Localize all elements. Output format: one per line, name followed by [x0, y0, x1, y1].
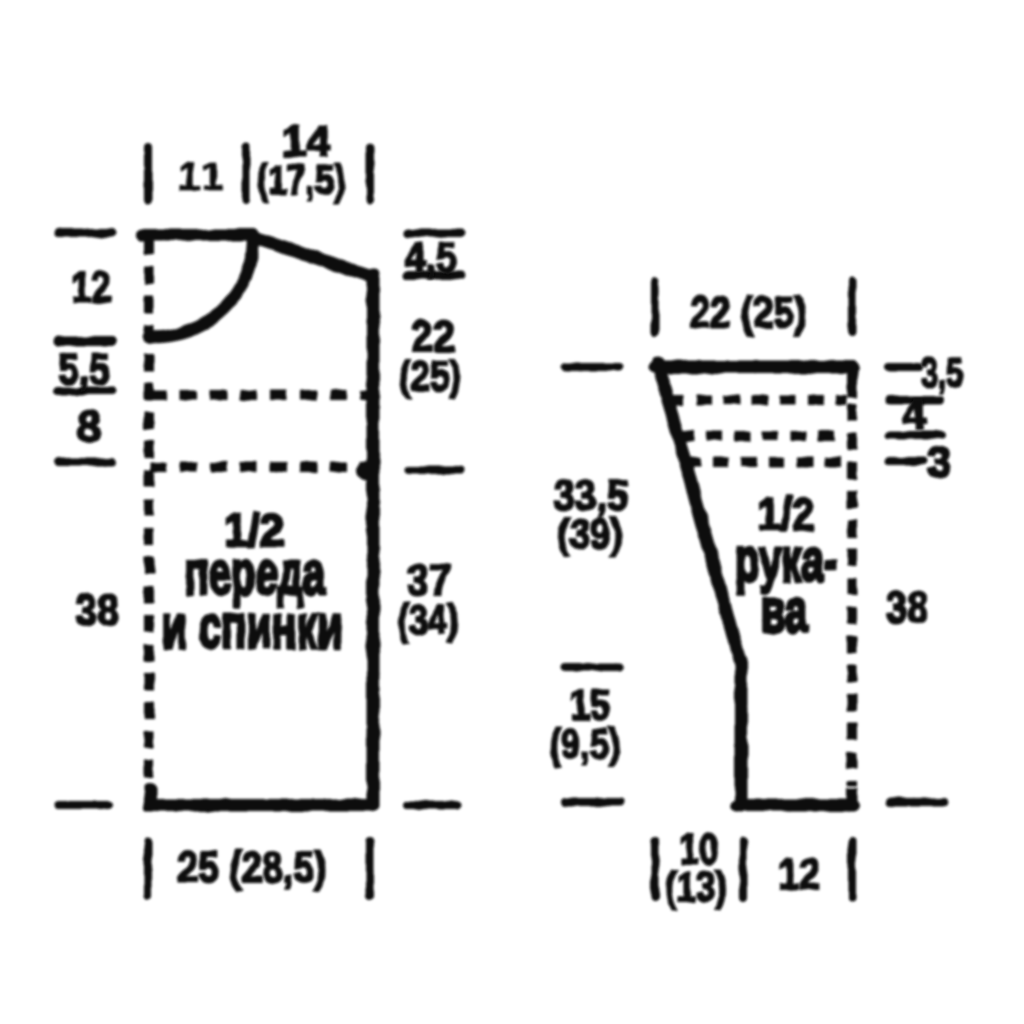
- front/back piece: top width tick left: [144, 147, 152, 200]
- front/back piece: right tick at waist: [409, 466, 461, 474]
- svg-text:(13): (13): [665, 863, 727, 910]
- svg-text:5,5: 5,5: [58, 345, 110, 394]
- front/back piece: top width tick right: [366, 147, 374, 200]
- front/back piece: neckline curve: [149, 239, 253, 337]
- sleeve piece: left tick at cuff: [565, 798, 620, 806]
- sleeve piece: left tick at top: [565, 363, 620, 371]
- svg-text:(39): (39): [558, 510, 623, 557]
- svg-text:12: 12: [71, 263, 111, 312]
- front/back piece: left tick below 12: [58, 336, 112, 346]
- sleeve piece: left tick below 33,5: [565, 663, 620, 671]
- sleeve piece: right dash at 3: [889, 457, 924, 465]
- sleeve piece: top edge: [655, 361, 853, 374]
- front/back piece: right tick below 4,5: [407, 271, 462, 279]
- svg-text:(17,5): (17,5): [257, 156, 346, 203]
- front/back piece: bottom width tick left: [144, 841, 152, 896]
- sleeve piece: bottom width tick right: [848, 841, 856, 898]
- front/back piece: right side edge: [367, 274, 380, 805]
- sleeve piece: bottom width tick left: [651, 841, 659, 898]
- front/back piece: top shoulder edge: [142, 229, 254, 241]
- svg-text:38: 38: [75, 586, 119, 635]
- front/back piece: left tick below 5,5: [58, 387, 112, 395]
- svg-text:1: 1: [178, 155, 200, 199]
- front/back piece: lower inner dashed line (waist level): [150, 462, 364, 472]
- front/back piece: center fold line (dashed): [144, 238, 154, 798]
- sleeve piece: right tick at cuff: [890, 798, 944, 806]
- svg-text:1: 1: [201, 155, 223, 199]
- front/back piece: bottom hem edge: [150, 788, 373, 805]
- sleeve piece: right bottom corner stub: [847, 788, 858, 805]
- sleeve piece: right fold edge (dashed): [847, 404, 857, 786]
- svg-text:12: 12: [778, 850, 820, 899]
- front/back piece: left tick below 8: [58, 458, 112, 466]
- svg-text:ва: ва: [761, 576, 808, 645]
- front/back piece: top width tick middle: [242, 147, 250, 200]
- sleeve piece: right tick below 4: [889, 431, 942, 439]
- svg-text:3: 3: [927, 438, 951, 487]
- front/back piece: left tick at hem: [58, 801, 108, 809]
- svg-text:(34): (34): [398, 596, 459, 643]
- front/back piece: right tick at hem: [407, 801, 458, 809]
- sleeve piece: bottom cuff edge: [737, 799, 853, 811]
- svg-text:(9,5): (9,5): [550, 720, 621, 767]
- sleeve piece: top width tick left: [651, 281, 659, 332]
- front/back piece: waist junction blob: [357, 461, 377, 481]
- sleeve piece: bottom width tick middle: [739, 841, 747, 898]
- svg-text:38: 38: [886, 583, 928, 632]
- sleeve piece: inner dashed line at 3 level: [685, 457, 846, 467]
- svg-text:25 (28,5): 25 (28,5): [178, 843, 327, 892]
- front/back piece: right tick above 4,5: [407, 229, 462, 237]
- svg-text:4: 4: [902, 390, 927, 439]
- sleeve piece: lower left edge: [735, 661, 748, 805]
- sleeve piece: top width tick right: [848, 281, 856, 332]
- sleeve piece: inner dashed line at 4 level: [678, 431, 846, 441]
- svg-text:3,5: 3,5: [921, 349, 963, 396]
- front/back piece: upper inner dashed line (armhole level): [150, 390, 367, 400]
- front/back piece: bottom width tick right: [366, 841, 374, 896]
- sleeve piece: right dash at 3,5: [888, 363, 919, 371]
- svg-text:8: 8: [77, 402, 101, 451]
- svg-text:(25): (25): [399, 352, 461, 399]
- sleeve piece: slanted left edge: [658, 363, 741, 665]
- front/back piece: left tick at shoulder level: [58, 229, 112, 237]
- svg-text:и спинки: и спинки: [162, 592, 343, 661]
- sleeve piece: right top corner stub: [847, 364, 858, 398]
- sleeve piece: right tick above 4: [889, 396, 940, 404]
- sleeve piece: inner dashed line at 3,5 level: [668, 395, 846, 405]
- svg-text:22 (25): 22 (25): [690, 288, 807, 337]
- svg-text:4,5: 4,5: [405, 234, 457, 282]
- front/back piece: shoulder slope: [250, 236, 373, 277]
